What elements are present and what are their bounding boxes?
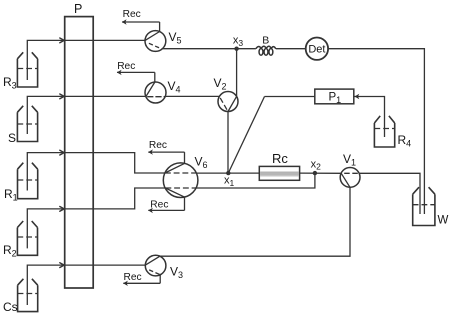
node x1: [226, 171, 230, 175]
wire Rc to V1: [300, 172, 342, 174]
bottle R4: [374, 116, 394, 147]
wire V1 to W: [359, 173, 420, 214]
svg-text:Cs: Cs: [3, 300, 18, 314]
svg-text:Rec: Rec: [123, 9, 141, 20]
arrow into P line2: [60, 94, 64, 99]
node x3: [234, 47, 238, 51]
svg-text:S: S: [8, 131, 16, 145]
wire V2 down to x1: [227, 112, 229, 174]
wire Cs line: [27, 265, 145, 305]
wire x3 down to V2: [236, 49, 238, 97]
arrow Rec V5: [122, 19, 127, 24]
arrow into P line3: [60, 150, 64, 155]
arrow into P line5: [60, 263, 64, 268]
wire Det to right corner and down to W: [328, 49, 425, 214]
node x2: [313, 171, 317, 175]
wire R2 line: [27, 188, 165, 248]
wire P1 to junction: [265, 96, 315, 98]
svg-text:P: P: [74, 2, 82, 16]
pump P: [65, 17, 94, 288]
arrowheads: [60, 38, 64, 268]
svg-text:Rec: Rec: [117, 61, 135, 72]
detector Det: [306, 38, 328, 60]
wire V6 lower to x2 riser: [196, 175, 315, 188]
valve V1: [340, 168, 360, 188]
wire R3 line: [27, 40, 145, 80]
arrow Rec V3: [123, 281, 128, 286]
wire R4 to P1: [355, 97, 385, 138]
arrow into P line1: [60, 38, 64, 43]
valve V5: [122, 22, 166, 51]
wire R1 line: [27, 153, 165, 191]
bottle R2: [17, 221, 37, 255]
arrow Rec V6 bottom: [148, 208, 153, 213]
svg-text:Rec: Rec: [150, 199, 168, 210]
arrow Rec V6 top: [148, 149, 153, 154]
svg-text:Det: Det: [308, 44, 325, 56]
reactor Rc: [259, 166, 299, 180]
svg-text:B: B: [262, 34, 269, 46]
svg-text:Rec: Rec: [124, 272, 142, 283]
arrow Rec V4: [117, 70, 122, 75]
bottle Cs: [18, 279, 38, 312]
wire V6 to x1: [196, 172, 259, 174]
wire diagonal to x1: [228, 97, 264, 174]
bottle R1: [18, 163, 38, 199]
pump P1: [315, 89, 354, 104]
bottle W: [413, 187, 435, 225]
svg-text:W: W: [438, 215, 449, 227]
wire V1 down and left to V3: [160, 187, 350, 256]
coil B: [256, 46, 276, 55]
arrow into P line4: [60, 207, 64, 212]
wire V4 to V2: [166, 95, 220, 97]
wire S line: [27, 96, 145, 134]
valve V4: [117, 72, 166, 103]
svg-text:Rc: Rc: [272, 151, 288, 166]
valve V2: [218, 92, 238, 112]
arrow into P1: [355, 94, 360, 99]
wire B to Det: [276, 48, 307, 50]
valve V3: [123, 255, 166, 283]
svg-text:Rec: Rec: [149, 140, 167, 151]
bottle R3: [17, 52, 37, 87]
bottle S: [17, 106, 37, 142]
valve V6: [148, 152, 198, 210]
wire V5 to x3 and on to coil B: [162, 48, 256, 50]
